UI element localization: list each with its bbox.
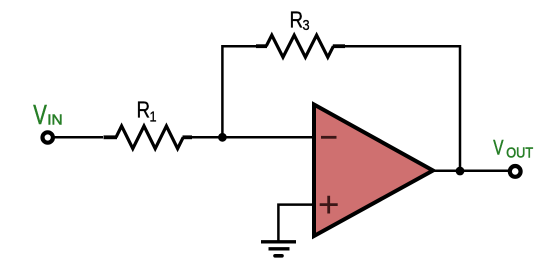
svg-text:OUT: OUT (506, 145, 533, 161)
svg-text:R: R (290, 7, 304, 34)
svg-text:3: 3 (303, 16, 310, 33)
svg-text:V: V (33, 100, 47, 131)
svg-text:V: V (493, 135, 504, 159)
svg-text:1: 1 (150, 107, 157, 124)
svg-text:R: R (137, 97, 151, 124)
svg-text:IN: IN (47, 112, 62, 129)
